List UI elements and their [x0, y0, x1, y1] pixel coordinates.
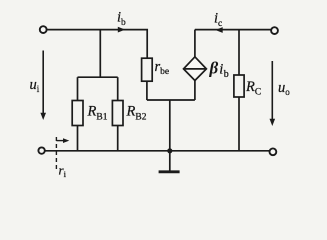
wire: emitter drop to ground [169, 100, 171, 151]
current arrow i_b [118, 27, 125, 33]
terminal: output bottom [270, 148, 277, 155]
resistor R_B2 [112, 77, 123, 151]
resistor R_B1 [72, 77, 83, 151]
current arrow i_c [215, 27, 222, 33]
wire: collector rail (top-right) [195, 29, 271, 31]
terminal: output top [271, 27, 278, 34]
wire: base to bias-divider drop [99, 30, 101, 78]
ground [159, 151, 180, 172]
resistor R_C [234, 30, 244, 151]
arrow u_o (output voltage) [270, 61, 276, 126]
wire: emitter bar [147, 99, 195, 101]
node: junction dot on bottom rail [167, 148, 172, 153]
wire: base rail (top-left) into r_be top lead [47, 30, 147, 59]
arrow u_i (input voltage) [40, 51, 46, 121]
controlled source βi_b (diamond) [184, 30, 207, 100]
dashed boundary line for r_i [55, 137, 57, 170]
terminal: input top [40, 26, 47, 33]
resistor r_be [142, 58, 153, 100]
terminal: input bottom [38, 147, 44, 153]
dashed arrow r_i (input resistance direction) [56, 138, 69, 143]
wire: bottom rail [45, 150, 269, 152]
wire: bias top bar [78, 76, 118, 78]
